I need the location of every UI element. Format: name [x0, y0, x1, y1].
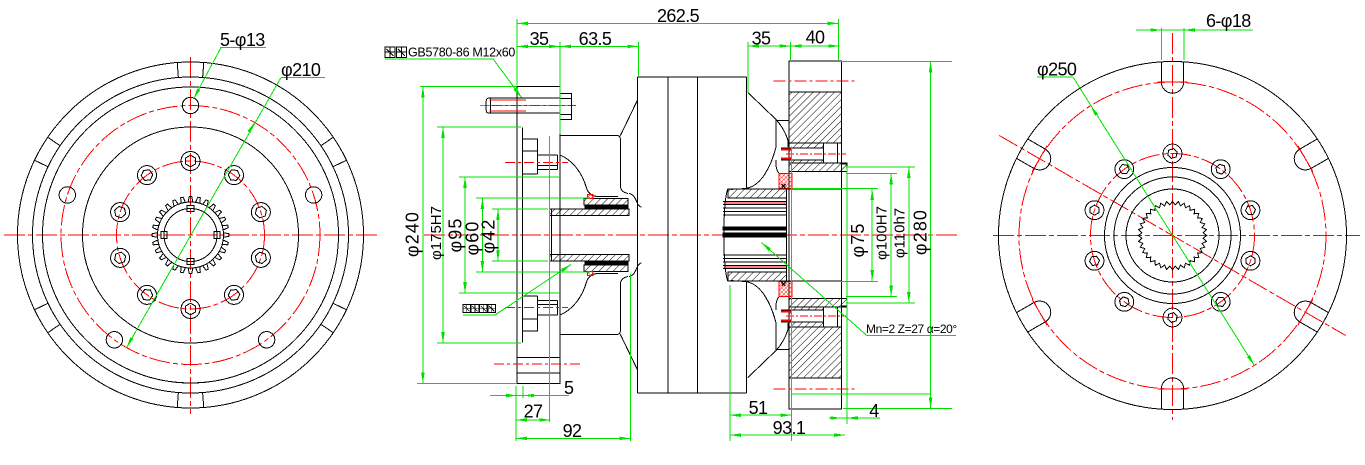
dimension 40: [790, 45, 839, 47]
svg-text:35: 35: [530, 29, 549, 49]
label Mn=2 Z=27 a=20: [867, 335, 956, 337]
left view center gear ring: [158, 202, 224, 268]
bolt M12x60: [480, 105, 575, 107]
svg-text:92: 92: [563, 421, 582, 441]
svg-text:φ75: φ75: [848, 223, 868, 258]
input bearing sleeves: [584, 199, 628, 206]
left view inner face circle: [83, 127, 299, 343]
disc bolt circle lines (red): [774, 80, 856, 82]
right view rim slots 6xphi18: [1017, 62, 1329, 409]
left view 10 hex bolts: [111, 152, 271, 319]
plate step lines: [522, 139, 537, 151]
input shaft (hollow): [550, 209, 630, 215]
label input bearing: [463, 314, 495, 316]
svg-text:φ110h7: φ110h7: [892, 208, 909, 258]
middle view: cross-section: [385, 6, 957, 441]
right view inner bolt circle phi164: [1091, 154, 1255, 318]
dimension 5-phi13 leader: [220, 47, 266, 49]
svg-text:φ100H7: φ100H7: [874, 206, 891, 260]
slot center ticks: [1032, 82, 1313, 389]
bolt head: [560, 93, 572, 119]
output carrier cone: [748, 93, 776, 120]
svg-text:5: 5: [564, 378, 574, 398]
label bolt GB5780-86 M12x60: [385, 58, 493, 60]
svg-text:Mn=2 Z=27 α=20°: Mn=2 Z=27 α=20°: [866, 322, 957, 336]
left view bolt circle phi210: [61, 106, 320, 365]
dimension phi210 leader: [127, 78, 281, 348]
output seals (red): [779, 174, 792, 189]
left view rim slots: [34, 63, 346, 408]
left view outer flange circle: [18, 62, 364, 408]
svg-text:φ175H7: φ175H7: [428, 206, 445, 260]
svg-text:262.5: 262.5: [657, 6, 700, 26]
plate bolt holes: [517, 356, 560, 358]
main centerline: [424, 234, 957, 236]
right view inner circles: [1105, 168, 1241, 304]
dimension 262.5: [517, 22, 839, 24]
extension lines top: [516, 19, 518, 85]
right view 10 hex bolts: [1085, 144, 1260, 327]
svg-text:GB5780-86 M12x60: GB5780-86 M12x60: [408, 46, 515, 60]
output hub with spline: [724, 189, 728, 281]
left dimension stack: [420, 86, 517, 88]
svg-text:φ250: φ250: [1037, 60, 1077, 80]
dimension 35 left: [517, 45, 560, 47]
bolt thread lines: [490, 99, 527, 101]
right view horizontal centerline: [993, 235, 1360, 237]
left view horizontal centerline: [4, 234, 378, 236]
svg-text:40: 40: [806, 28, 825, 48]
svg-text:51: 51: [749, 398, 768, 418]
dimension 35 right: [748, 45, 791, 47]
disc edges: [789, 170, 847, 172]
right view: output flange front view: [993, 11, 1360, 420]
left view vertical centerline: [190, 57, 192, 414]
bottom dimensions left: [515, 386, 517, 441]
svg-text:35: 35: [752, 29, 771, 49]
left view spline bore: [164, 209, 217, 262]
bell housing outer profile: [560, 136, 628, 194]
dimension 6-phi18: [1160, 28, 1162, 60]
flange bolt-circle centerlines (section): [492, 105, 576, 107]
svg-text:63.5: 63.5: [579, 29, 612, 49]
left view rim circle 2: [33, 77, 349, 393]
input seals (red): [588, 195, 594, 199]
right view outer circle: [999, 62, 1347, 410]
right view bolt circle phi250: [1019, 82, 1326, 389]
output ring step: [841, 164, 847, 306]
disc hatched sections: [789, 92, 841, 143]
left view inner bolt circle: [117, 161, 265, 309]
output flange disc: [789, 61, 841, 409]
left view 5xphi13 holes: [59, 97, 322, 348]
svg-text:27: 27: [524, 402, 543, 422]
disc mounting bolt holes: [792, 148, 824, 160]
ring gear housing block: [638, 76, 747, 78]
svg-text:φ42: φ42: [479, 219, 499, 254]
input flange plate section: [517, 86, 560, 383]
left view: input flange front view: [4, 30, 378, 414]
svg-text:φ210: φ210: [281, 60, 321, 80]
svg-text:φ240: φ240: [403, 211, 423, 257]
hub spline lines: [723, 201, 787, 268]
right view diagonal centerline: [999, 136, 1345, 336]
right view internal spline: [1138, 201, 1207, 270]
right view vertical centerline: [1172, 33, 1174, 420]
svg-text:93.1: 93.1: [773, 418, 806, 438]
bell housing inner profile: [560, 155, 618, 196]
left view rim circle 3: [43, 87, 339, 383]
right dimension stack: [793, 187, 878, 189]
svg-text:4: 4: [869, 401, 879, 421]
dimension phi250: [1037, 76, 1073, 78]
hub spline bands: [723, 227, 787, 230]
svg-text:6-φ18: 6-φ18: [1206, 11, 1251, 31]
svg-text:φ280: φ280: [911, 209, 931, 255]
svg-text:5-φ13: 5-φ13: [220, 30, 265, 50]
left view gear teeth: [152, 197, 229, 274]
bottom dimensions right: [729, 285, 731, 441]
dimension 63.5: [560, 45, 638, 47]
